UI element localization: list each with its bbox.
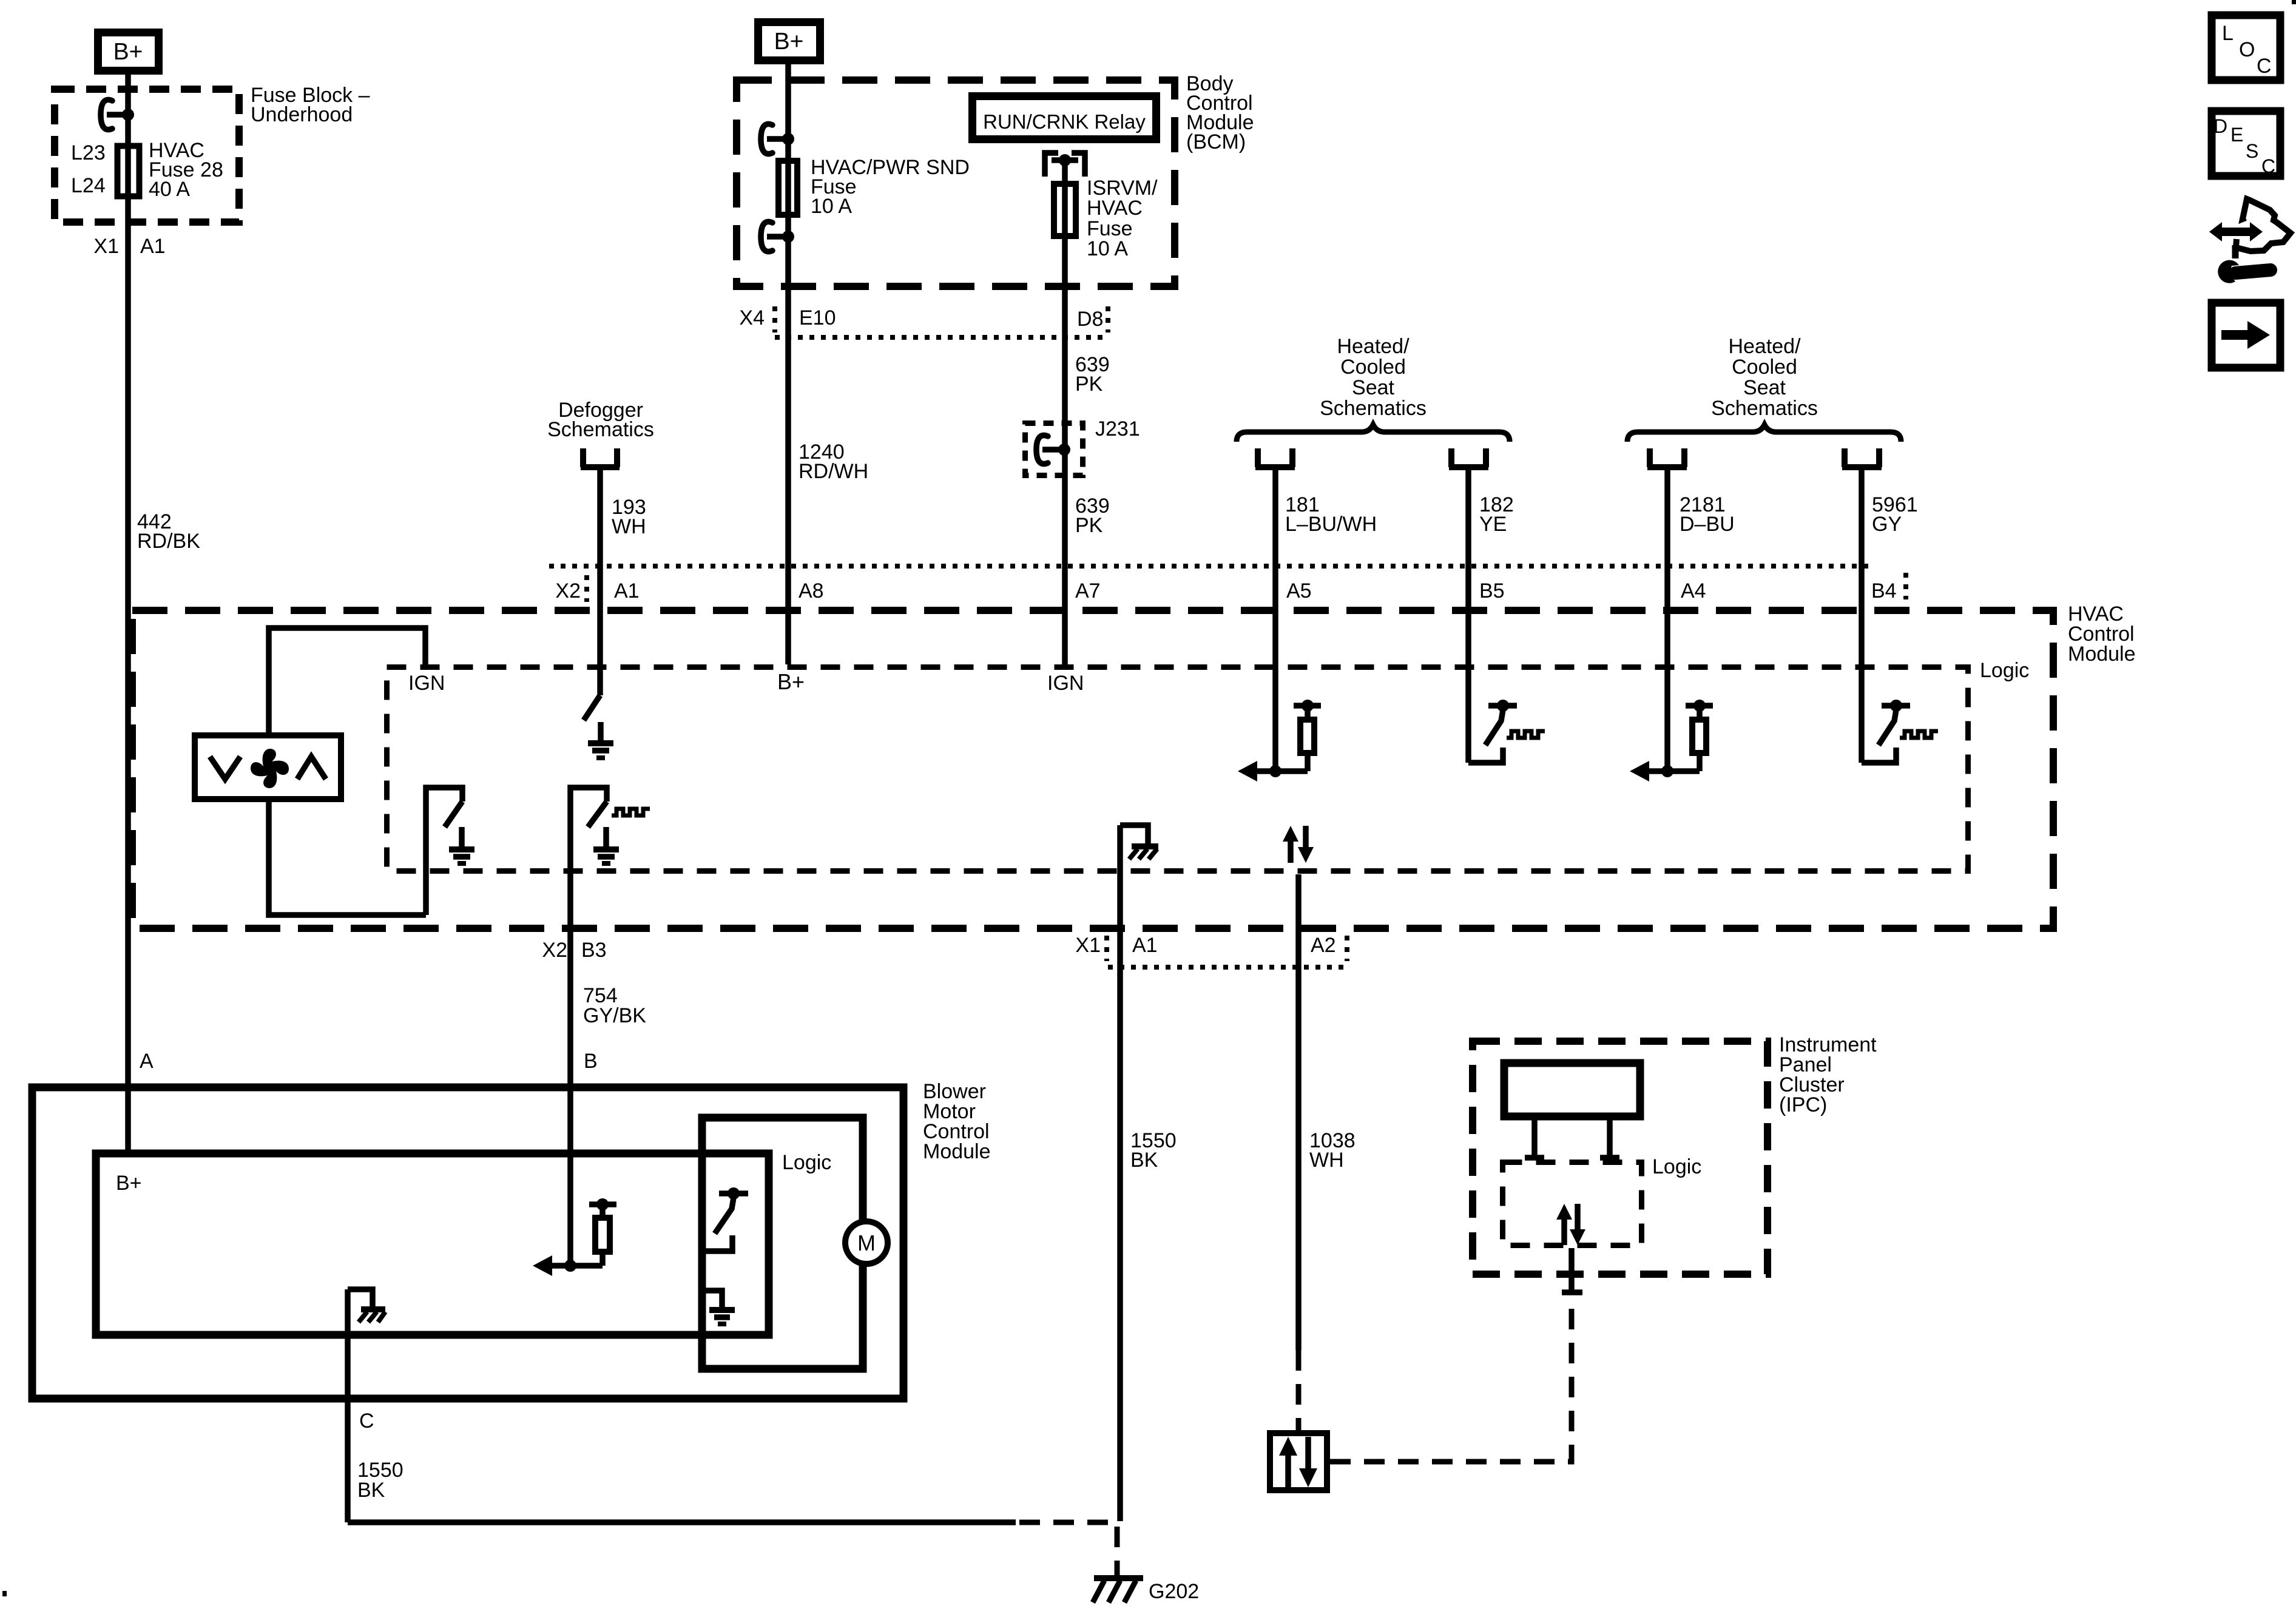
chassis ground (blower): [359, 1309, 385, 1322]
stray dot bottom-left: [2, 1591, 7, 1596]
PWM signal symbol (B5): [1507, 731, 1545, 738]
svg-text:D: D: [2213, 115, 2227, 137]
blower B+ rail box: [96, 1153, 769, 1335]
relay contact of RUN/CRNK relay: [1045, 153, 1085, 177]
svg-text:Module: Module: [2068, 643, 2136, 666]
wire 1038 WH dashed run: [1296, 1350, 1302, 1430]
SECTION: HVAC control module: [132, 603, 2136, 1521]
icon LOC box: [2212, 15, 2280, 80]
relay box RUN/CRNK Relay: [973, 96, 1156, 140]
svg-text:S: S: [2246, 140, 2258, 162]
svg-text:Heated/: Heated/: [1728, 335, 1801, 358]
svg-text:A1: A1: [140, 235, 166, 258]
switch blower PWM driver: [570, 788, 607, 932]
svg-text:D8: D8: [1077, 308, 1103, 331]
IPC logic dashed box: [1503, 1163, 1642, 1246]
chassis ground (module): [1129, 846, 1158, 859]
svg-text:A2: A2: [1311, 934, 1336, 957]
fan speed up chevron: [297, 757, 326, 779]
off-page bracket defogger: [581, 448, 620, 467]
resistor (A5 pull-up): [1294, 700, 1321, 753]
svg-text:BK: BK: [1130, 1149, 1158, 1172]
svg-text:40 A: 40 A: [149, 178, 190, 201]
connector tick X1: [1104, 936, 1109, 961]
label Instrument Panel Cluster (IPC): [1779, 1033, 1877, 1116]
svg-text:WH: WH: [612, 515, 646, 538]
blower motor M: [845, 1221, 888, 1264]
svg-text:RD/WH: RD/WH: [799, 460, 868, 483]
svg-text:B4: B4: [1871, 579, 1897, 603]
fuse ISRVM/HVAC 10 A: [1054, 184, 1076, 236]
wire label 5961 GY: [1872, 493, 1918, 536]
svg-text:L23: L23: [71, 141, 106, 164]
svg-text:B+: B+: [774, 29, 804, 55]
terminal clip below HVAC/PWR SND fuse: [761, 221, 794, 251]
ground (fan driver): [449, 827, 474, 863]
brace (left seat group): [1237, 425, 1510, 442]
label Defogger Schematics: [547, 399, 654, 441]
icon DESC box: [2212, 111, 2280, 177]
data link dashed to IPC: [1330, 1295, 1572, 1462]
stray mark top-right corner: [2292, 0, 2296, 4]
icon data-link connector (car with arrows and wrench): [2209, 199, 2291, 283]
ground (defogger sense): [588, 722, 613, 758]
fuse HVAC/PWR SND 10 A: [778, 161, 797, 215]
ground (blower driver): [593, 827, 619, 863]
svg-text:YE: YE: [1479, 513, 1507, 536]
sensor input circuit A5: [1238, 756, 1308, 781]
off-page bracket seat A4: [1647, 448, 1687, 467]
svg-text:L–BU/WH: L–BU/WH: [1285, 513, 1377, 536]
icon forward arrow box: [2212, 303, 2280, 368]
label ISRVM/HVAC Fuse 10 A: [1087, 177, 1158, 260]
wire 5961 GY vertical: [1859, 470, 1865, 763]
blower logic box: [702, 1118, 863, 1369]
fan control box: [195, 735, 341, 799]
connector tick A2: [1345, 936, 1349, 961]
fan speed down chevron: [210, 757, 240, 779]
svg-text:G202: G202: [1149, 1580, 1199, 1603]
wire 1038 WH from logic: [1295, 874, 1302, 1350]
switch B4 output driver: [1862, 700, 1910, 763]
wire 442 RD/BK vertical from B+ to Blower Motor A: [125, 75, 131, 1150]
instrument panel cluster dashed box: [1473, 1041, 1768, 1274]
svg-text:GY: GY: [1872, 513, 1902, 536]
svg-text:HVAC: HVAC: [1087, 197, 1143, 220]
wire label 1038 WH: [1309, 1129, 1356, 1172]
SECTION: top-middle BCM: [737, 22, 1254, 665]
off-page bracket seat B5: [1449, 448, 1488, 467]
wire 193 WH vertical: [597, 470, 603, 695]
wire 1550 BK dashed run to ground: [1019, 1522, 1117, 1576]
SECTION: X1 connector row: [542, 934, 1355, 1172]
svg-text:X1: X1: [93, 235, 119, 258]
power symbol B+ (middle): [758, 22, 820, 61]
blower motor control module box: [32, 1087, 903, 1399]
speed signal junction (B): [533, 1255, 603, 1276]
svg-text:Logic: Logic: [782, 1151, 831, 1174]
IPC display leg (left): [1525, 1120, 1544, 1158]
svg-text:RD/BK: RD/BK: [137, 530, 200, 553]
svg-text:X1: X1: [1075, 934, 1101, 957]
svg-text:B3: B3: [581, 939, 607, 962]
svg-text:B+: B+: [116, 1172, 142, 1195]
svg-text:10 A: 10 A: [811, 195, 852, 218]
svg-text:BK: BK: [357, 1479, 385, 1502]
wire label 193 WH: [612, 496, 646, 538]
wire 1240 RD/WH vertical from B+ to HVAC logic: [785, 64, 791, 664]
wire 1550 BK horizontal run: [348, 1519, 1016, 1525]
wire label 1550 BK (right): [1130, 1129, 1177, 1172]
wire label 442 RD/BK: [137, 510, 200, 553]
switch blower logic driver: [698, 1187, 748, 1251]
svg-text:PK: PK: [1075, 514, 1103, 537]
serial data arrows (A2): [1283, 826, 1314, 863]
sensor input circuit A4: [1630, 756, 1700, 781]
svg-text:GY/BK: GY/BK: [583, 1004, 646, 1027]
svg-text:IGN: IGN: [408, 672, 445, 695]
terminal clip splice J231: [1036, 435, 1070, 464]
svg-text:Schematics: Schematics: [1320, 397, 1427, 420]
wire 639 PK vertical from relay to HVAC logic: [1062, 160, 1068, 664]
svg-text:Logic: Logic: [1980, 659, 2029, 682]
svg-text:J231: J231: [1095, 417, 1140, 441]
connector tick B4: [1903, 573, 1908, 599]
SECTION: top-left power feed: [55, 33, 370, 1150]
serial data arrows (IPC): [1556, 1204, 1585, 1245]
switch defogger sense: [584, 695, 600, 720]
ground return hook (1550 BK): [1120, 825, 1148, 845]
fan blade symbol: [251, 749, 289, 788]
svg-text:Schematics: Schematics: [547, 418, 654, 441]
svg-text:E10: E10: [799, 306, 836, 329]
svg-text:A1: A1: [614, 579, 640, 603]
svg-text:M: M: [857, 1230, 876, 1255]
wire 181 L-BU/WH vertical: [1272, 470, 1278, 771]
wire 182 YE vertical: [1465, 470, 1471, 763]
svg-text:A4: A4: [1681, 579, 1706, 603]
splice J231 dashed box: [1025, 424, 1083, 476]
IPC display leg (right): [1600, 1120, 1619, 1158]
brace (right seat group): [1627, 425, 1901, 442]
connector dotted edge X2: [549, 564, 1869, 569]
svg-text:Underhood: Underhood: [251, 103, 353, 126]
svg-text:(IPC): (IPC): [1779, 1093, 1827, 1116]
wire label 639 PK (lower): [1075, 495, 1110, 537]
svg-text:X2: X2: [542, 939, 567, 962]
svg-text:Cooled: Cooled: [1340, 356, 1406, 379]
terminal clip at fuse input: [101, 100, 134, 129]
label Body Control Module (BCM): [1186, 72, 1254, 154]
HVAC logic dashed box: [387, 667, 1968, 871]
svg-text:Module: Module: [923, 1140, 991, 1163]
svg-text:A: A: [140, 1050, 154, 1073]
svg-text:L: L: [2222, 22, 2234, 45]
ground (blower logic): [698, 1291, 735, 1324]
fuse block underhood dashed box: [55, 89, 239, 222]
off-page bracket seat B4: [1842, 448, 1882, 467]
svg-text:Cooled: Cooled: [1732, 356, 1797, 379]
label HVAC Control Module: [2068, 603, 2136, 666]
connector tick D8: [1106, 306, 1110, 333]
svg-text:(BCM): (BCM): [1186, 130, 1246, 154]
IPC logic leg: [1562, 1248, 1582, 1294]
svg-text:L24: L24: [71, 174, 106, 197]
SECTION: right sidebar icons: [2209, 15, 2291, 368]
svg-text:B: B: [584, 1050, 598, 1073]
wire fan box to IGN input: [269, 628, 425, 732]
serial data box: [1270, 1433, 1327, 1490]
connector tick X4: [772, 306, 777, 333]
switch fan relay driver: [426, 788, 462, 915]
wire fan box to low-speed switch: [269, 802, 426, 915]
connector dotted edge X1: [1108, 965, 1345, 970]
label Heated/Cooled Seat Schematics (left): [1320, 335, 1427, 420]
svg-text:C: C: [2257, 55, 2272, 78]
HVAC control module dashed box: [132, 610, 2053, 928]
svg-text:A1: A1: [1132, 934, 1158, 957]
svg-text:E: E: [2230, 124, 2243, 146]
label Heated/Cooled Seat Schematics (right): [1711, 335, 1818, 420]
svg-text:Seat: Seat: [1743, 376, 1786, 399]
switch B5 output driver: [1468, 700, 1517, 763]
connector tick X2: [584, 575, 589, 602]
svg-text:C: C: [359, 1409, 374, 1433]
svg-text:X4: X4: [739, 306, 765, 329]
SECTION: defogger and seat references: [547, 335, 1918, 771]
PWM signal symbol (B4): [1900, 731, 1938, 738]
SECTION: X2 connector row: [549, 566, 1906, 603]
SECTION: blower motor control module: [32, 932, 991, 1522]
svg-text:O: O: [2239, 38, 2255, 61]
wire 1550 BK from C terminal: [345, 1289, 351, 1522]
ground return hook (C): [348, 1289, 373, 1308]
svg-text:A5: A5: [1286, 579, 1312, 603]
wire 2181 D-BU vertical: [1664, 470, 1670, 771]
connector dotted edge X4: [775, 335, 1108, 340]
svg-text:WH: WH: [1309, 1149, 1344, 1172]
wire label 1240 RD/WH: [799, 441, 868, 483]
svg-text:A7: A7: [1075, 579, 1101, 603]
wire label 2181 D-BU: [1680, 493, 1735, 536]
power symbol B+ (left): [98, 33, 159, 71]
PWM signal symbol (blower driver): [612, 809, 650, 815]
label HVAC/PWR SND Fuse 10 A: [811, 156, 970, 218]
svg-text:C: C: [2261, 155, 2275, 177]
ground G202: [1093, 1578, 1143, 1602]
svg-text:PK: PK: [1075, 373, 1103, 396]
label HVAC Fuse 28 40 A: [149, 139, 223, 201]
svg-text:10 A: 10 A: [1087, 237, 1128, 260]
wire 1550 BK from module: [1117, 825, 1123, 1521]
wire label 182 YE: [1479, 493, 1514, 536]
svg-text:Heated/: Heated/: [1337, 335, 1410, 358]
svg-text:Schematics: Schematics: [1711, 397, 1818, 420]
wire label 1550 BK (left): [357, 1459, 403, 1502]
svg-text:RUN/CRNK Relay: RUN/CRNK Relay: [983, 110, 1146, 133]
resistor (B pull-up): [589, 1198, 616, 1252]
body control module dashed box: [737, 80, 1175, 286]
SECTION: instrument panel cluster: [1473, 1033, 1877, 1274]
label Blower Motor Control Module: [923, 1080, 991, 1163]
svg-text:B5: B5: [1479, 579, 1505, 603]
svg-text:X2: X2: [555, 579, 581, 603]
fuse HVAC Fuse 28 40 A: [118, 146, 140, 197]
svg-text:B+: B+: [113, 39, 143, 65]
label Fuse Block - Underhood: [251, 84, 370, 126]
svg-text:Logic: Logic: [1652, 1155, 1701, 1178]
off-page bracket seat A5: [1255, 448, 1295, 467]
svg-text:D–BU: D–BU: [1680, 513, 1735, 536]
svg-text:A8: A8: [799, 579, 824, 603]
IPC display block: [1504, 1063, 1640, 1116]
resistor (A4 pull-up): [1686, 700, 1713, 753]
wire label 754 GY/BK: [583, 984, 646, 1027]
wire label 639 PK (upper): [1075, 353, 1110, 396]
wire label 181 L-BU/WH: [1285, 493, 1377, 536]
svg-text:B+: B+: [777, 669, 805, 694]
svg-text:IGN: IGN: [1047, 672, 1084, 695]
wire 754 GY/BK into blower (continuation): [567, 932, 573, 1266]
terminal clip above HVAC/PWR SND fuse: [761, 124, 794, 154]
svg-text:Seat: Seat: [1352, 376, 1394, 399]
